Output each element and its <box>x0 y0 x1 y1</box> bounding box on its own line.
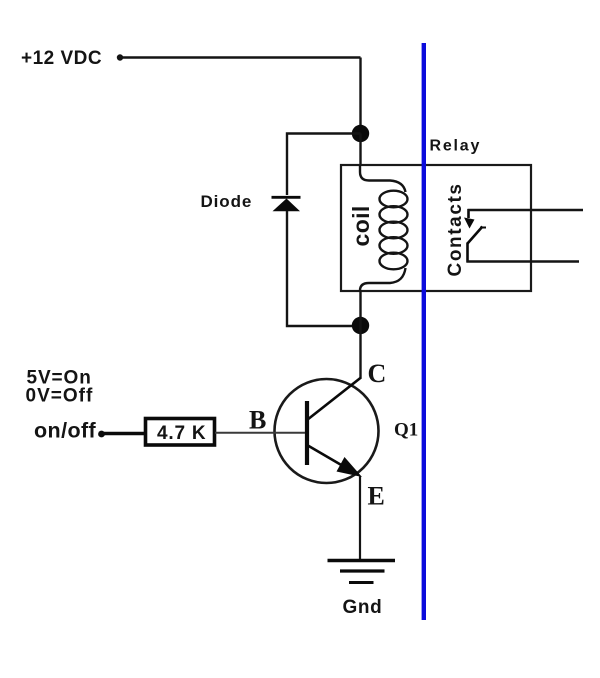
svg-text:4.7 K: 4.7 K <box>157 423 206 444</box>
wire relay coil bottom lead <box>359 291 361 326</box>
wire collector <box>359 326 361 379</box>
svg-text:Contacts: Contacts <box>445 182 466 276</box>
wire contact upper stub <box>468 209 584 212</box>
wire contact lower stub <box>467 260 580 263</box>
svg-text:Diode: Diode <box>201 192 253 211</box>
relay coil <box>360 165 408 291</box>
svg-text:0V=Off: 0V=Off <box>26 386 94 407</box>
svg-text:Gnd: Gnd <box>343 597 383 618</box>
svg-text:E: E <box>368 482 385 511</box>
wire +12V horizontal <box>120 56 361 58</box>
svg-text:Relay: Relay <box>430 138 482 155</box>
diode D1 <box>272 197 301 211</box>
wire +12V vertical drop <box>359 58 361 134</box>
svg-text:B: B <box>249 406 266 435</box>
node on/off input dot <box>98 431 105 438</box>
relay contacts <box>464 209 486 263</box>
wire emitter <box>359 477 361 561</box>
resistor R1 <box>146 419 215 446</box>
svg-text:+12 VDC: +12 VDC <box>21 48 102 69</box>
wire diode anode branch <box>287 211 361 326</box>
svg-text:on/off: on/off <box>34 419 97 443</box>
svg-text:coil: coil <box>348 205 374 246</box>
ground <box>328 561 396 583</box>
wire input to resistor <box>102 432 146 436</box>
svg-text:C: C <box>368 359 387 388</box>
relay box <box>341 165 531 291</box>
junction node top <box>352 125 369 142</box>
wire diode cathode branch <box>287 134 361 196</box>
junction node bottom <box>352 317 369 334</box>
wire relay coil top lead <box>359 134 361 167</box>
blue divider line <box>422 43 426 620</box>
transistor Q1 <box>275 378 379 484</box>
node +12V terminal dot <box>117 54 123 60</box>
wire base <box>215 432 305 434</box>
svg-text:Q1: Q1 <box>394 420 418 441</box>
